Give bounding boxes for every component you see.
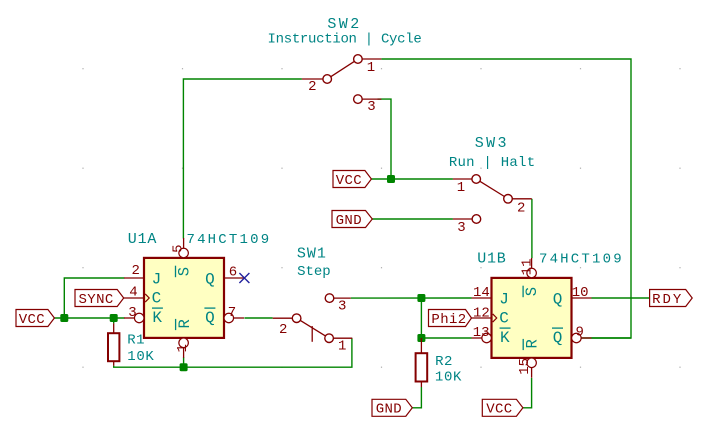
wire SW2 pin2 to U1A S pin5 — [183, 79, 302, 239]
global label VCC top — [333, 171, 371, 188]
svg-text:12: 12 — [473, 305, 490, 321]
resistor R1 — [108, 323, 119, 365]
svg-text:5: 5 — [170, 244, 186, 252]
svg-text:U1A: U1A — [128, 231, 157, 248]
svg-text:Q: Q — [205, 309, 215, 327]
svg-text:C: C — [499, 309, 509, 327]
svg-text:Q: Q — [553, 329, 563, 347]
wire VCC node to SW3 pin1 — [371, 178, 453, 180]
svg-text:1: 1 — [175, 344, 191, 352]
svg-text:1: 1 — [367, 60, 375, 76]
U1A pin J — [124, 277, 144, 279]
svg-text:Run | Halt: Run | Halt — [449, 155, 536, 171]
svg-text:11: 11 — [519, 258, 535, 275]
U1B pin R inverted bottom — [531, 368, 533, 378]
svg-text:3: 3 — [338, 299, 346, 315]
global label Phi2 — [429, 310, 472, 327]
global label SYNC — [75, 290, 124, 307]
wire VCC to U1A K pin3 — [54, 317, 124, 319]
svg-text:J: J — [499, 291, 509, 309]
wire SW2 pin1 to U1B Q-bar pin9 — [381, 59, 631, 338]
U1B pin K inverted — [472, 337, 482, 339]
U1B pin C clock — [471, 317, 492, 319]
svg-text:R: R — [524, 339, 542, 348]
wire R2 bottom to GND — [412, 387, 421, 408]
wire down to U1B K pin13 — [421, 298, 471, 338]
svg-text:3: 3 — [367, 99, 375, 115]
svg-text:3: 3 — [128, 305, 136, 321]
global label GND bottom — [372, 399, 412, 416]
switch SW2 — [302, 55, 382, 104]
svg-text:2: 2 — [517, 201, 525, 217]
junction VCC node at U1A — [60, 314, 68, 322]
svg-text:SW1: SW1 — [297, 245, 327, 262]
svg-text:4: 4 — [129, 285, 137, 301]
U1B pin S inverted top — [531, 258, 533, 268]
wire GND to SW3 pin3 — [372, 218, 453, 220]
op: body U1A — [144, 258, 224, 338]
junction U1A R pin1 net — [180, 363, 188, 371]
U1A pin Q — [224, 277, 244, 279]
junction VCC to SW3 — [387, 175, 395, 183]
svg-text:74HCT109: 74HCT109 — [539, 251, 624, 267]
svg-text:3: 3 — [457, 220, 465, 236]
junction R1 top — [110, 314, 118, 322]
global label VCC bottom — [482, 399, 523, 416]
svg-text:10K: 10K — [127, 349, 154, 365]
svg-text:RDY: RDY — [652, 292, 683, 308]
wire SW3 pin2 to U1B S pin11 — [531, 199, 533, 258]
junction R2 top — [417, 334, 425, 342]
wire U1B Q-bar pin9 stub to vertical — [592, 337, 632, 339]
wire junction to R1 top — [113, 318, 115, 323]
global label RDY — [650, 290, 693, 307]
svg-text:VCC: VCC — [19, 312, 45, 328]
svg-text:VCC: VCC — [336, 173, 362, 189]
svg-text:13: 13 — [473, 325, 490, 341]
svg-text:2: 2 — [308, 79, 316, 95]
svg-text:SW3: SW3 — [475, 135, 509, 152]
svg-text:15: 15 — [517, 358, 533, 375]
svg-text:R1: R1 — [127, 333, 145, 349]
svg-text:S: S — [523, 287, 541, 296]
global label GND mid — [332, 211, 372, 228]
resistor R2 — [416, 338, 428, 387]
svg-text:Instruction | Cycle: Instruction | Cycle — [268, 31, 422, 47]
junction U1B J net — [417, 294, 425, 302]
svg-text:1: 1 — [338, 338, 346, 354]
svg-text:6: 6 — [229, 264, 237, 280]
svg-text:7: 7 — [228, 305, 236, 321]
svg-text:Q: Q — [553, 291, 563, 309]
U1A pin C clock — [123, 297, 144, 299]
svg-text:Phi2: Phi2 — [431, 312, 466, 328]
no-connect X at U1A pin 6 — [239, 273, 249, 283]
svg-text:GND: GND — [336, 213, 362, 229]
svg-text:1: 1 — [457, 180, 465, 196]
wire SW2 pin3 down to VCC node — [378, 99, 392, 179]
op: body U1B — [492, 278, 572, 358]
svg-text:Step: Step — [297, 264, 331, 280]
svg-text:9: 9 — [575, 324, 583, 340]
wire SW1 pin3 to U1B J pin14 — [351, 297, 472, 299]
svg-text:GND: GND — [376, 402, 402, 418]
svg-text:SYNC: SYNC — [78, 292, 113, 308]
svg-text:S: S — [176, 267, 194, 276]
U1A pin K inverted — [124, 317, 134, 319]
svg-text:Q: Q — [205, 271, 215, 289]
svg-text:R: R — [176, 319, 194, 328]
svg-text:2: 2 — [131, 263, 139, 279]
wire U1A R pin1 to bottom net — [183, 357, 185, 367]
svg-text:74HCT109: 74HCT109 — [186, 232, 271, 248]
wire VCC up to U1A J pin2 — [64, 278, 124, 318]
svg-text:14: 14 — [473, 285, 490, 301]
wire U1A Q-bar pin7 to SW1 pin2 — [244, 317, 272, 319]
svg-text:10: 10 — [572, 285, 589, 301]
wire R1 bottom to SW1 pin1 — [114, 338, 352, 367]
svg-text:U1B: U1B — [477, 250, 506, 267]
svg-text:VCC: VCC — [486, 402, 512, 418]
U1B pin Q — [572, 297, 592, 299]
svg-text:R2: R2 — [435, 354, 453, 370]
svg-text:10K: 10K — [435, 369, 462, 385]
svg-text:K: K — [152, 309, 162, 327]
U1A pin S inverted top — [183, 238, 185, 248]
U1B pin J — [472, 297, 492, 299]
switch SW3 — [453, 175, 532, 224]
global label VCC left — [16, 310, 54, 327]
U1A pin R inverted bottom — [183, 348, 185, 358]
svg-text:J: J — [152, 271, 162, 289]
svg-text:K: K — [500, 329, 510, 347]
svg-text:2: 2 — [279, 322, 287, 338]
U1A pin Q-bar inverted — [224, 313, 234, 323]
wire U1B R pin15 to VCC — [523, 378, 532, 408]
switch SW1 — [273, 294, 353, 343]
wire U1B Q pin10 to RDY — [592, 297, 650, 299]
U1B pin Q-bar inverted — [572, 333, 582, 343]
svg-text:C: C — [152, 289, 162, 307]
